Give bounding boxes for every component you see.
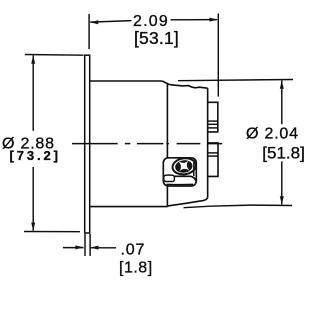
dim 2.88: bottom extent line bbox=[24, 231, 80, 233]
dim 2.09: left arrow bbox=[90, 20, 99, 24]
bracket inner right edge bbox=[193, 163, 195, 177]
dim 2.04: up arrow bbox=[280, 80, 284, 89]
bracket lip line bbox=[174, 176, 196, 181]
dim 2.04: dimension line upper bbox=[281, 80, 283, 124]
dim 2.88: top extent line bbox=[25, 54, 84, 57]
dim 2.88: dimension line lower bbox=[32, 167, 34, 231]
dim 2.04: bottom extent line bbox=[184, 205, 293, 208]
dim .07: right lead line bbox=[90, 247, 116, 249]
bracket inner bottom line bbox=[167, 183, 194, 185]
svg-text:[73.2]: [73.2] bbox=[10, 148, 61, 163]
rear face vertical bbox=[207, 88, 209, 197]
svg-text:Ø 2.04: Ø 2.04 bbox=[246, 125, 299, 142]
dim .07: left extension line bbox=[84, 234, 86, 256]
body top line bbox=[90, 80, 162, 82]
screw head outer ellipse bbox=[172, 157, 197, 176]
tab 1 bbox=[208, 102, 218, 132]
dim 2.09: right extension line bbox=[217, 14, 219, 97]
dim .07: left-pointing arrow bbox=[90, 246, 99, 250]
screw bracket outline bbox=[163, 158, 196, 186]
dim 2.09: dimension line left segment bbox=[90, 21, 131, 23]
dim .07: left lead line bbox=[63, 247, 84, 249]
rear bottom fillet and chamfer bbox=[168, 198, 208, 206]
svg-text:[53.1]: [53.1] bbox=[134, 28, 179, 48]
bracket foot bbox=[164, 175, 175, 181]
body bottom line bbox=[90, 206, 168, 208]
top chamfer bbox=[162, 81, 169, 85]
flange bbox=[85, 55, 90, 233]
dim 2.88: down arrow bbox=[31, 223, 35, 232]
dim 2.09: right arrow bbox=[209, 18, 218, 22]
tab 2 bbox=[208, 143, 218, 177]
dim 2.88: up arrow bbox=[31, 55, 35, 64]
centerline bbox=[72, 143, 222, 145]
dim 2.04: top extent line bbox=[178, 80, 293, 81]
dim 2.04: dimension line lower bbox=[281, 161, 283, 204]
dim .07: right-pointing arrow bbox=[75, 245, 84, 249]
rear top edge wavy bbox=[169, 85, 207, 89]
body shoulder vertical bbox=[166, 84, 168, 207]
dim 2.04: down arrow bbox=[280, 196, 284, 205]
dim 2.09: dimension line right segment bbox=[171, 19, 218, 21]
phillips cross bbox=[173, 155, 195, 177]
dim 2.88: dimension line upper bbox=[32, 55, 34, 130]
svg-text:[1.8]: [1.8] bbox=[119, 260, 153, 277]
dim 2.09: left extension line bbox=[88, 14, 90, 49]
svg-text:.07: .07 bbox=[121, 241, 146, 258]
svg-text:[51.8]: [51.8] bbox=[262, 144, 305, 163]
dim .07: right extension line bbox=[89, 234, 91, 256]
